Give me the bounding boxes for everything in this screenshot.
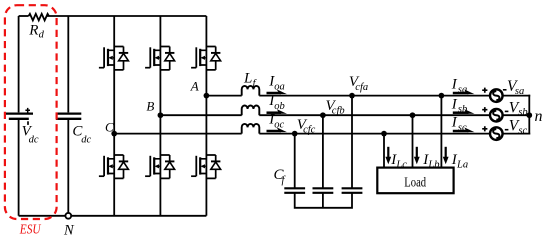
svg-text:sa: sa <box>458 85 467 96</box>
svg-text:A: A <box>190 78 199 93</box>
svg-text:dc: dc <box>29 134 39 145</box>
svg-text:Load: Load <box>404 175 426 190</box>
svg-text:C: C <box>105 120 114 135</box>
svg-text:I: I <box>451 96 458 112</box>
svg-text:n: n <box>535 108 543 125</box>
svg-text:oa: oa <box>274 82 285 93</box>
svg-text:cfc: cfc <box>303 125 316 136</box>
svg-text:cfa: cfa <box>355 82 368 93</box>
svg-text:La: La <box>456 160 468 171</box>
svg-text:Lc: Lc <box>395 160 407 171</box>
svg-text:cfb: cfb <box>332 106 345 117</box>
svg-text:I: I <box>451 77 458 93</box>
svg-text:sa: sa <box>515 86 524 97</box>
svg-text:B: B <box>146 99 154 114</box>
svg-text:sc: sc <box>458 123 467 134</box>
svg-text:oc: oc <box>274 120 284 131</box>
svg-text:f: f <box>282 175 287 186</box>
svg-text:sb: sb <box>458 104 467 115</box>
svg-text:Lb: Lb <box>427 160 439 171</box>
svg-text:d: d <box>39 30 45 41</box>
svg-text:dc: dc <box>81 134 91 145</box>
svg-text:R: R <box>28 22 38 38</box>
svg-text:sc: sc <box>518 125 527 136</box>
svg-text:N: N <box>63 223 75 239</box>
svg-text:ob: ob <box>274 101 285 112</box>
svg-text:f: f <box>253 79 258 90</box>
svg-text:sb: sb <box>518 107 527 118</box>
svg-text:I: I <box>451 115 458 131</box>
svg-text:L: L <box>243 71 252 87</box>
svg-text:ESU: ESU <box>19 222 41 237</box>
